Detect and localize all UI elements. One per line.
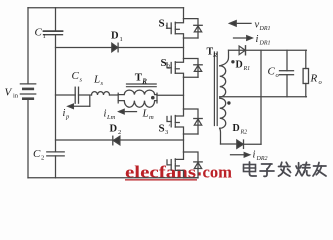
capacitor Cs xyxy=(75,87,78,103)
svg-text:S: S xyxy=(159,18,165,30)
svg-text:R: R xyxy=(310,73,318,85)
capacitor C1 xyxy=(44,31,63,35)
wire center tap rail xyxy=(220,96,307,98)
svg-text:C: C xyxy=(268,66,276,78)
svg-text:o: o xyxy=(276,72,280,79)
char dian xyxy=(244,162,257,176)
transformer Tr primary winding xyxy=(118,90,157,103)
capacitor C2 xyxy=(47,152,64,156)
secondary winding lower xyxy=(220,98,226,128)
wire Ls to Tr xyxy=(110,94,119,96)
svg-text:elecfans: elecfans xyxy=(125,162,197,181)
body diode of S1 xyxy=(184,19,203,38)
svg-text:L: L xyxy=(93,74,100,86)
secondary winding upper riser xyxy=(220,50,229,66)
svg-text:i: i xyxy=(253,150,256,161)
svg-text:o: o xyxy=(319,79,323,86)
inductor Lm (magnetizing) xyxy=(118,93,157,107)
watermark elecfans.com xyxy=(125,162,232,181)
svg-text:R1: R1 xyxy=(243,66,251,72)
MOSFET S1 xyxy=(167,19,184,38)
secondary dot upper xyxy=(231,60,234,63)
svg-text:C: C xyxy=(35,27,43,39)
svg-text:D: D xyxy=(236,60,243,71)
svg-text:C: C xyxy=(33,148,41,160)
char shao xyxy=(296,162,310,176)
svg-text:2: 2 xyxy=(41,155,44,162)
svg-text:R2: R2 xyxy=(240,130,248,136)
MOSFET S3 xyxy=(167,109,184,134)
wire left rail upper xyxy=(27,8,29,84)
body diode of S2 xyxy=(184,59,203,78)
primary polarity dot xyxy=(151,96,155,100)
svg-text:com: com xyxy=(203,162,233,181)
svg-text:S: S xyxy=(161,57,167,69)
wire D2 row xyxy=(56,139,184,141)
secondary winding lower drop xyxy=(219,128,222,144)
diode DR1 xyxy=(239,46,245,55)
svg-text:1: 1 xyxy=(165,24,168,31)
wire left rail lower xyxy=(27,99,29,178)
watermark chinese 电子发烧友 xyxy=(244,162,327,176)
diode D1 xyxy=(112,43,118,52)
svg-text:1: 1 xyxy=(43,33,46,40)
wire Tr to switch rail xyxy=(157,94,184,96)
wire D1 row xyxy=(56,47,184,49)
svg-text:s: s xyxy=(80,77,83,84)
svg-text:i: i xyxy=(256,34,259,45)
svg-text:2: 2 xyxy=(167,64,170,71)
wire bottom rail xyxy=(28,177,197,179)
secondary core lines xyxy=(214,52,217,126)
wire DR2 row xyxy=(221,143,237,145)
svg-text:2: 2 xyxy=(118,129,121,136)
primary core lines xyxy=(127,84,157,87)
char you xyxy=(313,163,326,177)
svg-text:p: p xyxy=(65,114,70,121)
diode D2 xyxy=(113,136,120,145)
svg-text:DR1: DR1 xyxy=(259,26,271,32)
arrow ip xyxy=(68,96,90,109)
svg-text:Lm: Lm xyxy=(106,114,116,121)
secondary winding upper xyxy=(220,66,226,97)
svg-text:m: m xyxy=(149,114,154,121)
svg-text:DR2: DR2 xyxy=(256,156,268,162)
svg-text:V: V xyxy=(5,86,13,98)
wire top rail xyxy=(28,7,184,9)
svg-text:R: R xyxy=(212,52,217,59)
arrow iLm xyxy=(119,109,137,114)
body diode of S3 xyxy=(184,109,203,134)
svg-text:DR1: DR1 xyxy=(259,41,271,47)
svg-text:′: ′ xyxy=(169,124,171,132)
arrow iDR2 xyxy=(231,153,250,158)
resistor Ro branch xyxy=(303,50,308,97)
secondary dot lower xyxy=(227,101,230,104)
arrow vDR1 xyxy=(230,21,252,27)
wire DR2 to cathode bus xyxy=(244,143,262,145)
wire cathode bus vertical xyxy=(260,50,262,144)
inductor Ls xyxy=(92,92,110,95)
wire Cs row left xyxy=(56,94,76,96)
MOSFET S4 (bottom, unlabeled) xyxy=(167,152,184,178)
svg-text:L: L xyxy=(142,108,149,120)
svg-text:R: R xyxy=(141,77,147,85)
capacitor Co branch xyxy=(280,50,294,97)
svg-text:D: D xyxy=(233,123,240,134)
svg-text:1: 1 xyxy=(120,36,123,43)
char zi xyxy=(260,164,274,176)
arrow iDR1 xyxy=(234,36,253,41)
svg-text:D: D xyxy=(111,30,119,41)
MOSFET S2 xyxy=(167,59,184,78)
char fa xyxy=(279,162,291,176)
battery Vin xyxy=(20,84,35,99)
wire output top rail xyxy=(229,49,307,51)
svg-text:S: S xyxy=(159,123,165,135)
wire mid rail middle segment xyxy=(55,35,57,152)
body diode of S4 (bottom, unlabeled) xyxy=(184,152,203,178)
svg-text:C: C xyxy=(72,70,80,82)
svg-text:s: s xyxy=(101,80,104,87)
wire mid rail (x=55.5) top segment xyxy=(55,8,57,31)
wire Cs to Ls xyxy=(79,94,92,96)
wire mid rail bottom segment xyxy=(55,156,57,178)
svg-text:in: in xyxy=(13,93,19,100)
switch rail segments xyxy=(183,8,185,19)
diode DR2 xyxy=(237,140,244,148)
svg-text:D: D xyxy=(110,124,118,135)
